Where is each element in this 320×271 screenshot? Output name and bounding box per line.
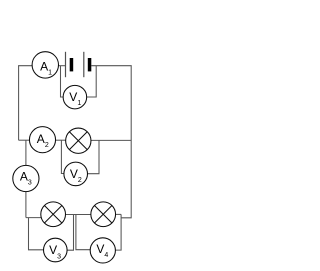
voltmeter V4 circle bbox=[90, 238, 115, 263]
wire row2 left stub bbox=[19, 139, 30, 141]
battery B1 cell 2 long plate bbox=[83, 52, 85, 77]
wire A2 to lamp L1 bbox=[56, 139, 66, 141]
battery B1 cell 1 long plate bbox=[65, 52, 67, 77]
wire V2 right riser bbox=[88, 140, 100, 173]
wire between lamp L2 and lamp L3 bbox=[66, 214, 91, 216]
lamp L3 cross bbox=[94, 206, 111, 223]
wire drop from stub to A3 bbox=[25, 140, 27, 165]
wire V3 right riser bbox=[67, 215, 74, 251]
lamp L2 cross bbox=[44, 206, 61, 223]
wire bottom-left horizontal to lamp L2 bbox=[26, 217, 42, 219]
wire V1 right riser bbox=[87, 66, 97, 97]
lamp L1 cross bbox=[69, 132, 87, 150]
wire V4 left riser bbox=[76, 215, 90, 250]
voltmeter V2 circle bbox=[64, 162, 88, 186]
ammeter A1 circle bbox=[32, 52, 58, 78]
lamp L1 circle bbox=[66, 128, 91, 153]
wire lamp L3 right stub bbox=[116, 213, 122, 215]
voltmeter V1 circle bbox=[63, 85, 87, 109]
wire V2 left riser bbox=[61, 140, 64, 173]
wire V1 left riser bbox=[61, 66, 64, 97]
lamp L2 circle bbox=[41, 202, 66, 227]
ammeter A3 circle bbox=[13, 165, 39, 191]
wire A1 to battery bbox=[59, 65, 66, 67]
battery B1 cell 2 short thick plate bbox=[88, 58, 92, 71]
battery B1 cell 1 short thick plate bbox=[70, 58, 74, 71]
wire A3 bottom drop bbox=[25, 192, 27, 218]
voltmeter V3 circle bbox=[44, 238, 68, 262]
wire V4 right riser bbox=[115, 214, 121, 250]
wire V3 left riser bbox=[29, 218, 44, 250]
wire lamp L1 to right vertical bbox=[91, 139, 131, 141]
ammeter A2 circle bbox=[29, 127, 55, 153]
lamp L3 circle bbox=[91, 202, 116, 227]
wire left vertical with top corner into A1 bbox=[19, 66, 32, 141]
wire battery to top-right corner, right vertical, bottom-right stub bbox=[91, 66, 131, 218]
